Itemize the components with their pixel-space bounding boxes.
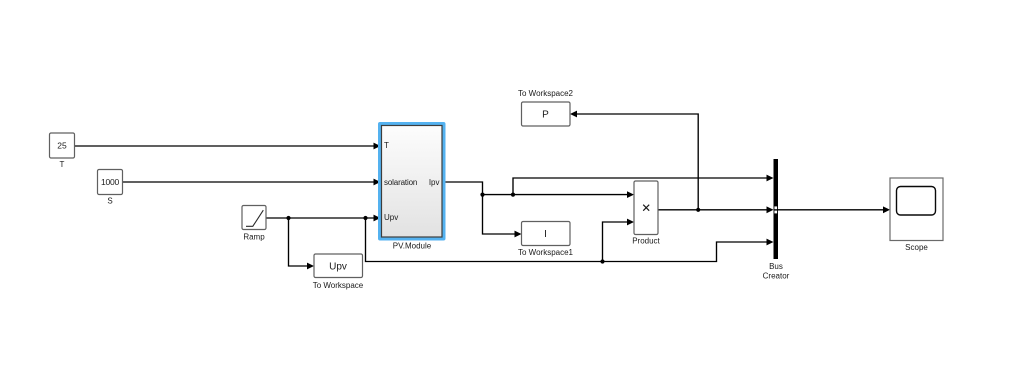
svg-text:S: S <box>107 197 112 206</box>
to-workspace block P <box>522 102 571 126</box>
wire 1000 to PV solaration input <box>123 179 381 186</box>
to-workspace block Upv <box>314 254 363 278</box>
svg-text:T: T <box>384 141 389 150</box>
svg-text:Upv: Upv <box>329 262 347 273</box>
wire PV Ipv output to Product first input <box>446 182 635 198</box>
scope block <box>890 178 943 241</box>
svg-text:Ipv: Ipv <box>429 178 440 187</box>
label Bus Creator <box>763 262 790 281</box>
svg-text:1000: 1000 <box>101 177 120 187</box>
svg-text:P: P <box>542 110 549 121</box>
junction on Ipv wire branch to I workspace <box>480 193 484 197</box>
svg-text:solaration: solaration <box>384 178 417 187</box>
junction on ramp wire branch to Upv workspace <box>286 216 290 220</box>
junction on Ipv wire branch to bus first input <box>511 193 515 197</box>
svg-text:To Workspace: To Workspace <box>313 281 364 290</box>
junction on bottom wire branch to Product second input <box>600 259 604 263</box>
svg-text:Product: Product <box>632 237 660 246</box>
bus creator bar <box>774 159 779 259</box>
svg-text:T: T <box>60 160 65 169</box>
svg-text:Ramp: Ramp <box>243 233 265 242</box>
wire branch down to I To Workspace1 block <box>483 195 522 238</box>
ramp block R <box>242 206 266 230</box>
wire bottom branch up to Product second input <box>603 219 635 262</box>
wire branch up to Bus Creator first input <box>513 175 774 195</box>
svg-text:To Workspace1: To Workspace1 <box>518 248 574 257</box>
wire Product output to Bus Creator second input <box>658 206 774 213</box>
wire branch down to Upv To Workspace block <box>289 218 315 269</box>
svg-text:I: I <box>544 229 547 240</box>
wire branch up and left to P To Workspace2 block <box>570 111 698 210</box>
to-workspace block I <box>522 222 571 246</box>
subsystem PV.Module body <box>382 126 443 238</box>
svg-text:Upv: Upv <box>384 213 398 222</box>
wire 25 to PV T input <box>75 143 381 150</box>
svg-text:PV.Module: PV.Module <box>393 241 432 250</box>
product block <box>634 181 658 235</box>
svg-text:Scope: Scope <box>905 243 928 252</box>
svg-text:Bus: Bus <box>769 262 783 271</box>
junction on ramp wire branch to bus bottom <box>363 216 367 220</box>
wire Ramp to PV Upv input <box>266 215 381 222</box>
wire Bus Creator output to Scope <box>774 206 891 213</box>
wire branch down along bottom to Bus Creator third input <box>366 218 774 262</box>
constant block 25 <box>50 133 75 158</box>
junction on product output branch to P workspace <box>696 208 700 212</box>
subsystem PV.Module selection highlight <box>378 122 446 241</box>
svg-text:25: 25 <box>57 141 67 151</box>
constant block 1000 <box>98 170 123 195</box>
svg-text:Creator: Creator <box>763 272 790 281</box>
svg-text:To Workspace2: To Workspace2 <box>518 89 574 98</box>
